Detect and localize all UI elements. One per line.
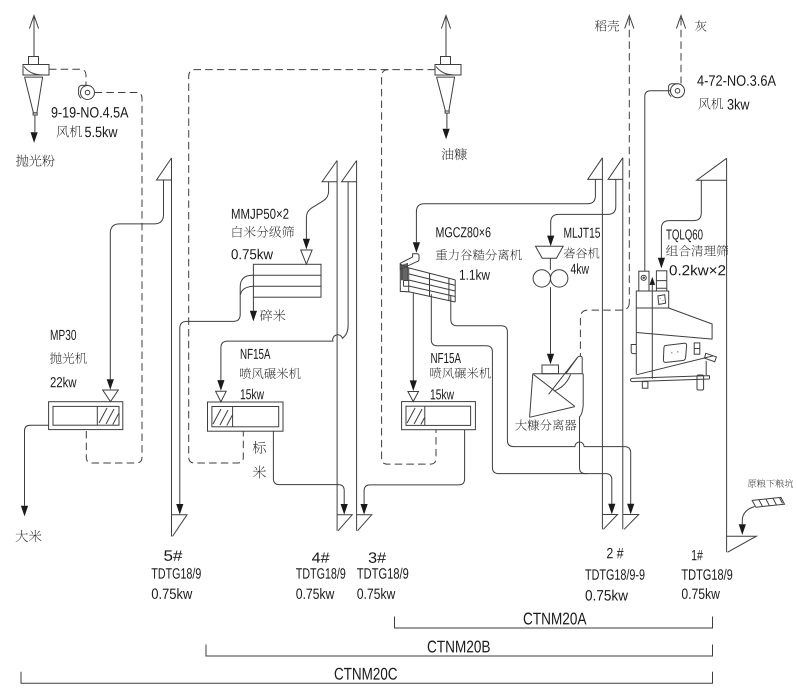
elevator 2# right unit leg and head xyxy=(608,158,623,530)
fan F2 4-72-NO.3.6A xyxy=(669,84,685,98)
wire: NF15A no.1 milled rice into elevator 4# boot with arrow xyxy=(273,431,347,514)
label elevator 3# TDTG18/9 0.75kw xyxy=(369,552,386,563)
bracket CTNM20B section xyxy=(206,645,713,657)
elevator 1# boot hopper xyxy=(727,536,757,552)
elevator 3# TDTG18/9 leg and head xyxy=(342,161,357,531)
label MGCZ80×6 重力谷糙分离机 1.1kw xyxy=(436,227,490,237)
wire: elevator 2# right discharge spout to MLJT15 husker xyxy=(551,179,616,235)
wire: sieve head-rice return into elevator 5# boot with arrow xyxy=(176,289,240,515)
wire: fan F1 to MP30 polisher aspiration (dashed air duct) xyxy=(86,93,142,464)
label elevator 4# TDTG18/9 0.75kw xyxy=(312,552,330,562)
label 稻壳 (rice husk) xyxy=(595,20,619,31)
wire: sieve overs to broken rice arrow xyxy=(250,297,257,321)
elevator 3# boot hopper xyxy=(357,515,372,531)
elevator 4# boot hopper xyxy=(337,515,352,531)
wire: elevator 2# left discharge spout to MGCZ separator xyxy=(416,179,595,242)
wire: fan F2 suction duct to TQLQ60 cleaner xyxy=(645,91,671,271)
bracket CTNM20C section xyxy=(21,672,713,684)
wire: cyclone CY2 exhaust stack with up arrow xyxy=(441,16,450,58)
elevator 2# left unit TDTG18/9-9 leg and head xyxy=(588,158,603,530)
elevator 2# right boot hopper xyxy=(623,515,639,530)
bracket CTNM20A section xyxy=(395,617,713,629)
elevator 2# left boot hopper xyxy=(602,515,617,530)
elevator 5# boot hopper xyxy=(172,515,188,537)
wire: elevator 5# discharge spout to MP30 xyxy=(110,180,163,379)
label CTNM20A xyxy=(524,613,587,625)
raw grain intake pit grate (hatched) xyxy=(752,497,784,507)
label elevator 5# TDTG18/9 0.75kw xyxy=(164,550,182,560)
wire: MGCZ brown rice outlet direct to NF15A no.2 xyxy=(412,293,414,381)
wire: elevator 1# discharge spout to TQLQ60 cleaner xyxy=(661,180,701,258)
cyclone CY2 (bran aspiration cyclone) xyxy=(435,57,461,114)
air relief arrow inside TQLQ60 (up) xyxy=(650,277,656,379)
wire: CY1 outlet to fan F1 inlet (dashed air duct) xyxy=(49,69,86,85)
polisher MP30 xyxy=(49,402,123,430)
rice whitener NF15A no.2 xyxy=(402,402,476,430)
funnel inlet of NF15A no.2 xyxy=(408,392,419,402)
combined cleaning sieve TQLQ60 xyxy=(631,271,717,390)
funnel inlet of MMJP sieve xyxy=(301,250,312,264)
wire: elevator 3# discharge spout to NF15A no.1 (hops over 4# leg) xyxy=(221,182,348,380)
wire: elevator 4# discharge spout to MMJP grading sieve xyxy=(306,182,328,239)
fan F1 9-19-NO.4.5A xyxy=(79,85,95,99)
label 碎米 (broken rice) xyxy=(260,309,286,321)
label 原粮下粮坑 (raw grain pit) xyxy=(748,479,793,487)
coarse bran separator 大糠分离器 xyxy=(530,356,584,417)
wire: aspiration manifold CY2 to NF15A no.1 (dashed) xyxy=(189,70,435,463)
node: rice bran discharge arrow xyxy=(443,113,450,139)
rice whitener NF15A no.1 xyxy=(208,402,284,431)
label NF15A 喷风碾米机 15kw (no.1) xyxy=(241,349,271,359)
elevator 1# TDTG18/9 leg and head xyxy=(697,158,727,552)
wire: MGCZ middle outlet to elevator 2# left boot (merges bran separator return) xyxy=(431,294,615,514)
label CTNM20B xyxy=(428,641,490,653)
label MMJP50×2 白米分级筛 0.75kw xyxy=(232,209,289,219)
label 灰 (ash) xyxy=(695,20,707,31)
funnel inlet of NF15A no.1 xyxy=(216,391,227,402)
label MP30 抛光机 22kw xyxy=(51,330,76,340)
wire: bran separator outlet merging into elevator 2# left feed xyxy=(580,405,588,473)
wire: MGCZ paddy return outlet to elevator 2# right boot (hops over bran pipe) xyxy=(451,296,635,515)
label 9-19-NO.4.5A xyxy=(52,107,129,118)
label CTNM20C xyxy=(335,668,397,680)
cyclone CY1 (polishing aspiration cyclone) xyxy=(23,57,49,116)
label 4-72-NO.3.6A xyxy=(697,75,776,86)
funnel inlet of MP30 xyxy=(103,390,119,402)
label 大糠分离器 (bran separator) xyxy=(515,419,576,431)
wire: NF15A no.2 aspiration branch to manifold (dashed) xyxy=(382,70,436,465)
label 油糠 (rice bran) xyxy=(442,148,467,160)
paddy separator MGCZ80x6 xyxy=(400,254,455,302)
label 风机 5.5kw xyxy=(57,125,82,137)
label 风机 3kw xyxy=(699,98,724,110)
wire: sieve head-rice outlets converging xyxy=(240,275,253,294)
white rice grading sieve MMJP50x2 xyxy=(253,264,321,297)
label 抛光粉 (polishing powder) xyxy=(16,155,55,167)
wire: pit to elevator 1# boot with arrow xyxy=(739,507,755,535)
wire: husk line corner to bran separator spout (dashed) xyxy=(580,302,629,356)
label NF15A 喷风碾米机 15kw (no.2) xyxy=(431,353,461,363)
paddy husker MLJT15 xyxy=(533,246,568,287)
wire: cyclone CY1 exhaust stack with up arrow xyxy=(29,16,38,58)
wire: ash outlet with up arrow (dashed) xyxy=(676,16,685,84)
label elevator 1# TDTG18/9 0.75kw xyxy=(692,550,703,560)
label TQLQ60 组合清理筛 0.2kw×2 xyxy=(666,229,702,242)
wire: NF15A no.2 milled rice into elevator 3# boot with arrow xyxy=(361,430,465,515)
elevator 4# TDTG18/9 leg and head xyxy=(322,161,337,531)
wire: husker outlet down to bran separator xyxy=(547,287,554,364)
elevator 5# TDTG18/9 leg and head xyxy=(157,158,172,536)
wire: rice husk outlet with up arrow (dashed) xyxy=(625,16,634,303)
node: polishing powder discharge arrow xyxy=(31,115,38,143)
label 大米 (white rice) xyxy=(16,530,42,542)
label 标米 (standard rice) xyxy=(253,441,266,479)
label MLJT15 砻谷机 4kw xyxy=(564,228,600,238)
label elevator 2# TDTG18/9-9 0.75kw xyxy=(607,548,624,558)
wire: MP30 outlet to white rice arrow xyxy=(21,425,49,516)
